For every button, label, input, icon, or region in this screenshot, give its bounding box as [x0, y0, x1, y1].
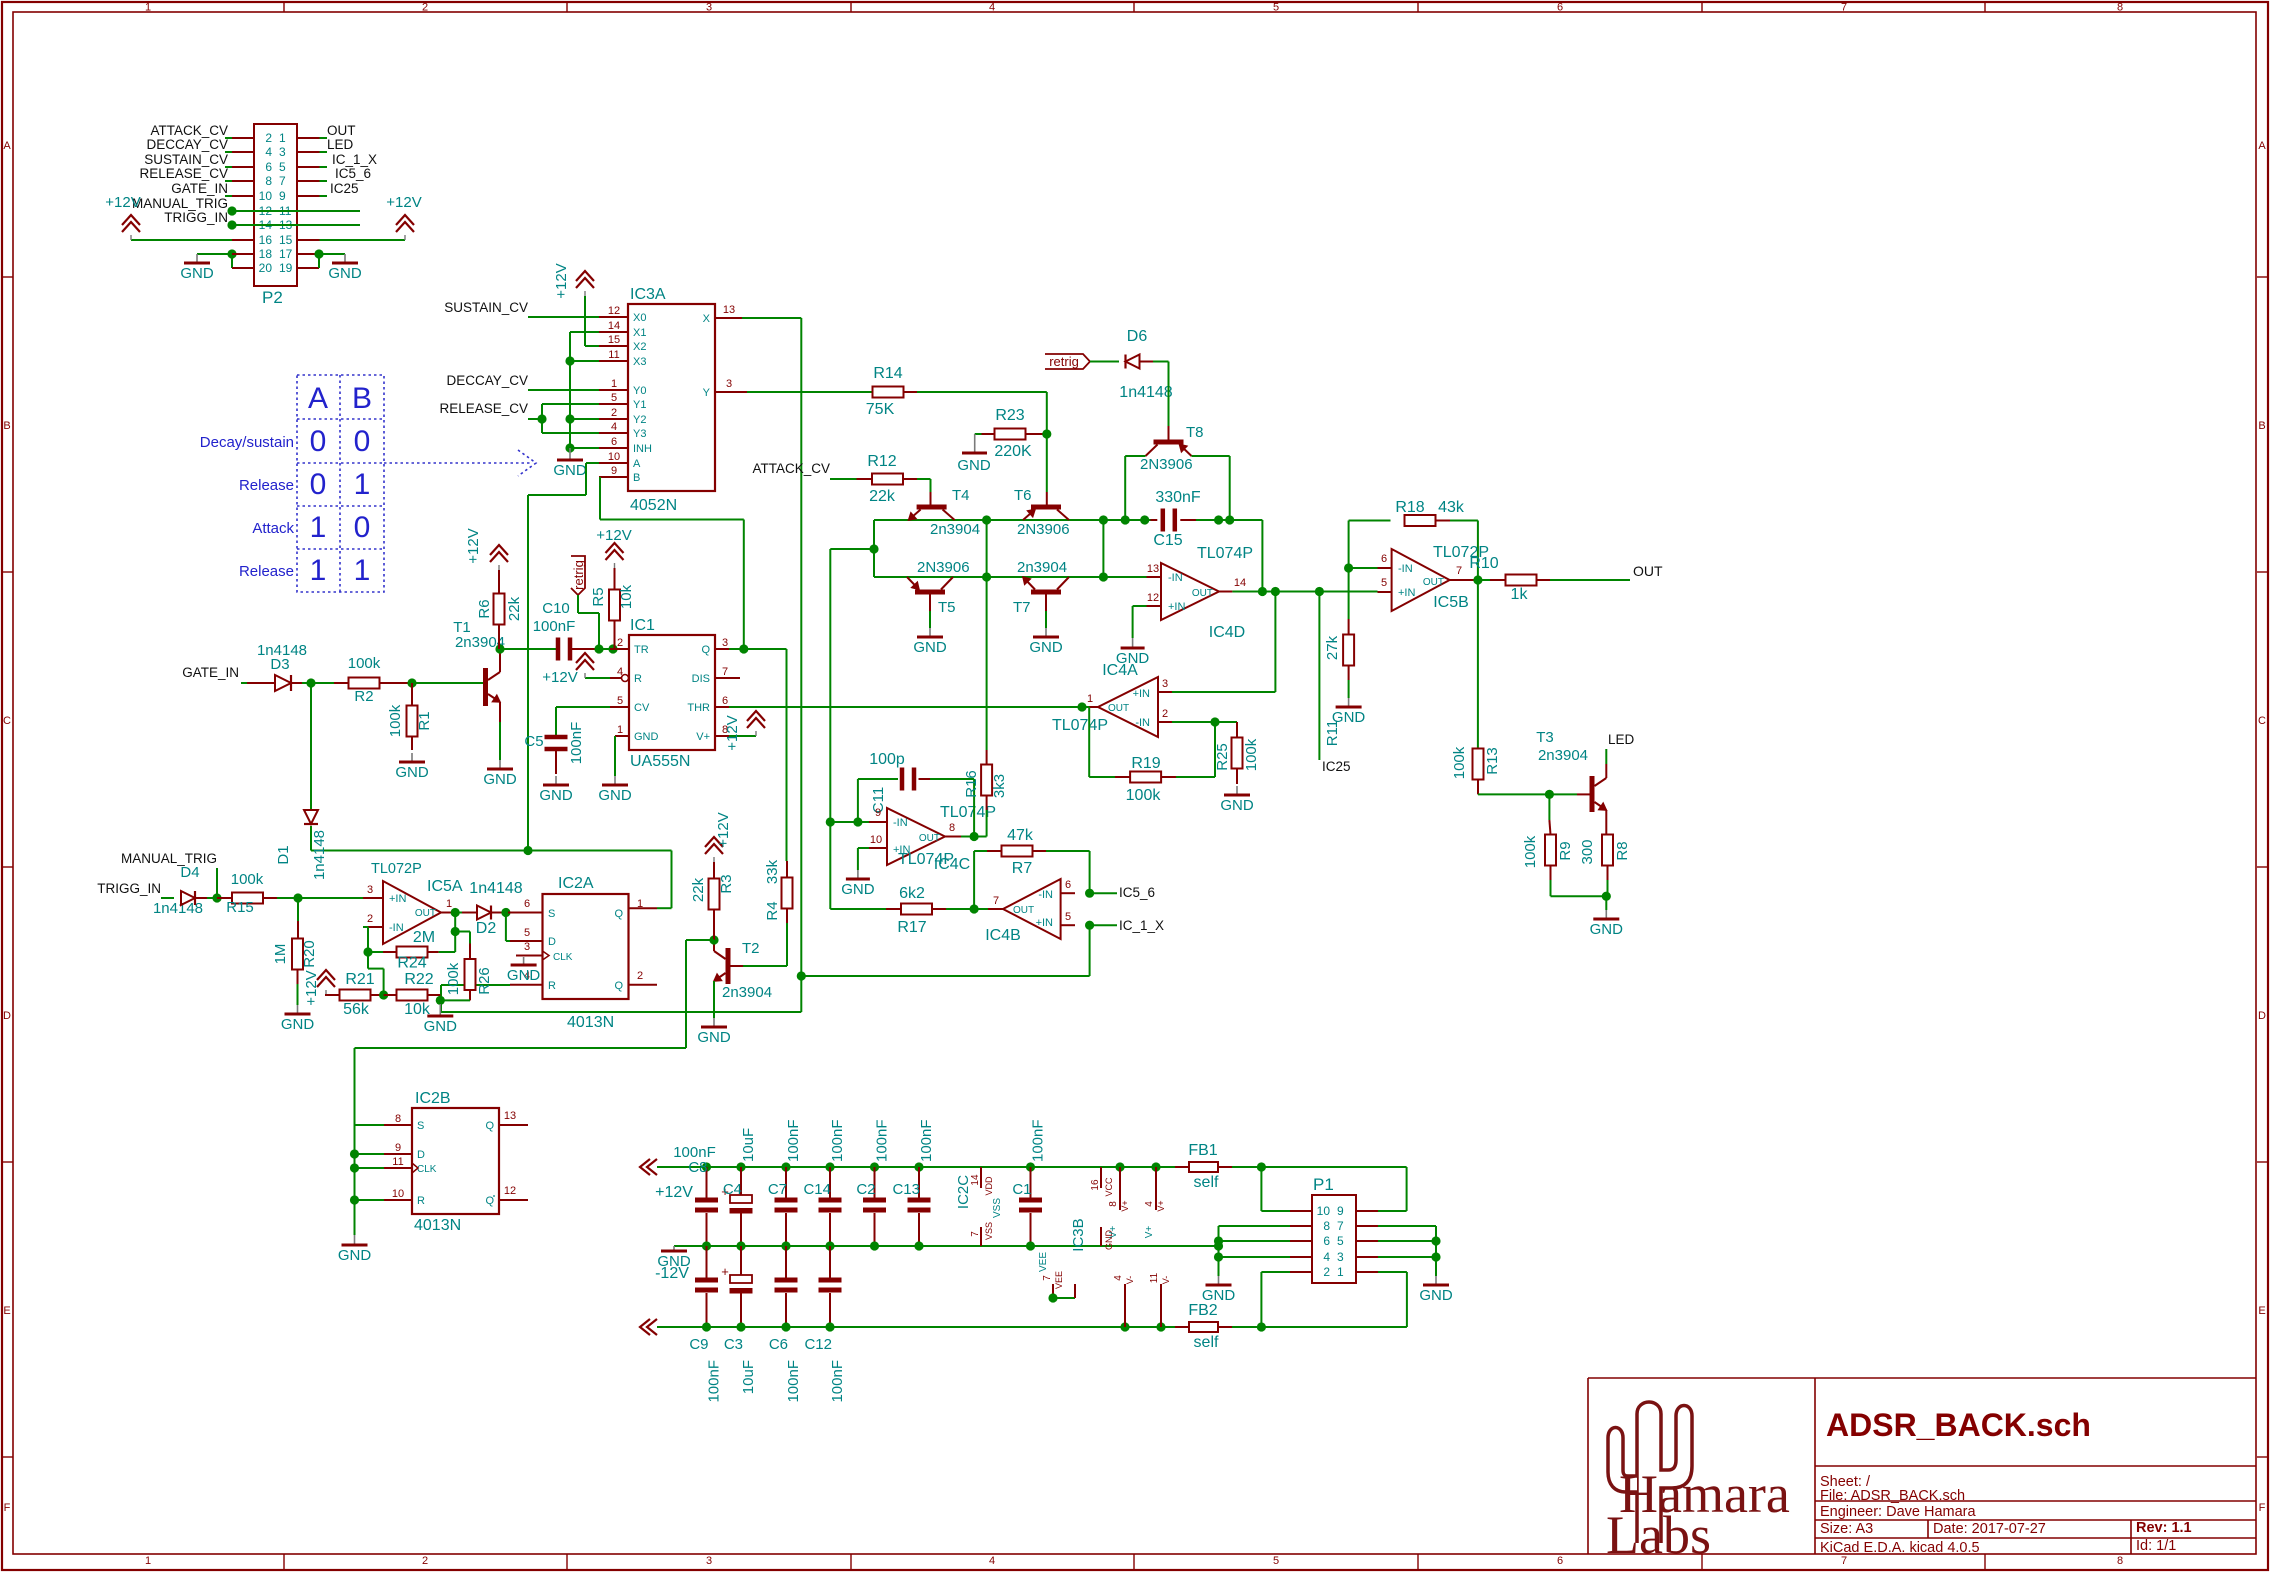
svg-text:FB2: FB2: [1188, 1302, 1217, 1319]
svg-text:1: 1: [446, 898, 452, 910]
svg-text:7: 7: [1337, 1219, 1344, 1233]
svg-text:Q: Q: [614, 980, 623, 992]
svg-text:Q: Q: [485, 1120, 494, 1132]
svg-text:12: 12: [608, 305, 620, 317]
svg-text:GND: GND: [281, 1016, 315, 1033]
svg-text:OUT: OUT: [327, 123, 356, 138]
svg-text:GND: GND: [841, 881, 875, 898]
svg-text:100nF: 100nF: [568, 722, 585, 765]
svg-text:UA555N: UA555N: [630, 753, 690, 770]
svg-text:F: F: [4, 1502, 11, 1514]
svg-text:7: 7: [279, 174, 286, 188]
svg-text:+IN: +IN: [1168, 601, 1185, 613]
svg-text:2M: 2M: [413, 929, 435, 946]
svg-text:R10: R10: [1469, 555, 1498, 572]
svg-text:1: 1: [1337, 1265, 1344, 1279]
svg-text:B: B: [3, 420, 10, 432]
svg-text:2: 2: [422, 1555, 428, 1567]
svg-text:GND: GND: [697, 1029, 731, 1046]
svg-text:22k: 22k: [869, 488, 896, 505]
svg-text:6: 6: [265, 160, 272, 174]
svg-text:V+: V+: [1144, 1226, 1155, 1239]
svg-text:THR: THR: [687, 702, 710, 714]
svg-text:R25: R25: [1214, 743, 1231, 771]
svg-text:9: 9: [875, 807, 881, 819]
svg-text:IC1: IC1: [630, 617, 655, 634]
svg-text:+12V: +12V: [542, 669, 577, 686]
svg-text:100nF: 100nF: [706, 1360, 723, 1403]
svg-text:5: 5: [1337, 1234, 1344, 1248]
svg-text:T5: T5: [938, 599, 956, 616]
svg-text:8: 8: [1323, 1219, 1330, 1233]
svg-text:10uF: 10uF: [740, 1128, 757, 1162]
svg-text:1n4148: 1n4148: [469, 880, 522, 897]
svg-text:INH: INH: [633, 443, 652, 455]
svg-text:3: 3: [1337, 1250, 1344, 1264]
svg-text:7: 7: [1841, 1555, 1847, 1567]
svg-text:X3: X3: [633, 356, 646, 368]
svg-text:VSS: VSS: [984, 1222, 994, 1240]
svg-text:-IN: -IN: [893, 817, 908, 829]
svg-text:R14: R14: [873, 365, 902, 382]
svg-text:OUT: OUT: [1423, 577, 1444, 588]
svg-text:IC5_6: IC5_6: [335, 166, 371, 181]
svg-text:IC4B: IC4B: [985, 927, 1021, 944]
svg-text:GND: GND: [507, 967, 541, 984]
svg-text:13: 13: [504, 1110, 516, 1122]
svg-text:TRIGG_IN: TRIGG_IN: [97, 881, 161, 896]
svg-text:2n3904: 2n3904: [930, 521, 980, 538]
svg-text:CV: CV: [634, 702, 650, 714]
svg-text:6: 6: [1381, 553, 1387, 565]
svg-text:1: 1: [354, 468, 371, 501]
svg-text:OUT: OUT: [1192, 588, 1213, 599]
svg-text:5: 5: [1065, 911, 1071, 923]
svg-text:100nF: 100nF: [918, 1119, 935, 1162]
svg-text:10: 10: [259, 189, 273, 203]
svg-text:4: 4: [1113, 1275, 1124, 1281]
svg-text:V+: V+: [1120, 1200, 1130, 1211]
svg-text:2: 2: [637, 970, 643, 982]
svg-text:CLK: CLK: [417, 1164, 437, 1175]
svg-text:C3: C3: [724, 1336, 743, 1353]
svg-text:5: 5: [1273, 1555, 1279, 1567]
svg-text:R9: R9: [1557, 841, 1574, 860]
svg-text:10: 10: [392, 1188, 404, 1200]
svg-text:2N3906: 2N3906: [917, 559, 970, 576]
svg-text:X0: X0: [633, 312, 646, 324]
svg-text:3: 3: [722, 637, 728, 649]
svg-text:100k: 100k: [1522, 835, 1539, 868]
svg-text:GND: GND: [328, 265, 362, 282]
svg-text:100k: 100k: [387, 704, 404, 737]
svg-text:4: 4: [989, 2, 995, 14]
svg-text:3: 3: [524, 941, 530, 953]
svg-text:330nF: 330nF: [1155, 489, 1201, 506]
svg-text:-IN: -IN: [1168, 572, 1183, 584]
svg-text:11: 11: [608, 349, 619, 361]
svg-text:P2: P2: [262, 288, 283, 307]
svg-text:4: 4: [611, 421, 617, 433]
svg-text:T8: T8: [1186, 424, 1204, 441]
svg-text:GND: GND: [424, 1018, 458, 1035]
svg-text:TRIGG_IN: TRIGG_IN: [164, 210, 228, 225]
svg-text:19: 19: [279, 261, 293, 275]
svg-text:16: 16: [259, 233, 273, 247]
svg-text:GND: GND: [539, 787, 573, 804]
svg-text:100k: 100k: [1126, 787, 1162, 804]
svg-text:ATTACK_CV: ATTACK_CV: [150, 123, 228, 138]
svg-text:Release: Release: [239, 563, 294, 580]
svg-text:100k: 100k: [1451, 746, 1468, 779]
svg-text:P1: P1: [1313, 1175, 1334, 1194]
svg-text:Q: Q: [614, 908, 623, 920]
svg-text:GND: GND: [657, 1253, 691, 1270]
svg-text:1: 1: [310, 554, 327, 587]
svg-text:1: 1: [145, 1555, 151, 1567]
svg-text:self: self: [1194, 1174, 1219, 1191]
svg-text:Y3: Y3: [633, 428, 646, 440]
svg-text:5: 5: [1381, 577, 1387, 589]
svg-text:4052N: 4052N: [630, 497, 677, 514]
svg-text:8: 8: [2117, 1555, 2123, 1567]
svg-text:13: 13: [723, 304, 735, 316]
svg-text:4: 4: [265, 145, 272, 159]
svg-text:IC5A: IC5A: [427, 878, 463, 895]
svg-text:100k: 100k: [231, 871, 264, 888]
svg-text:Decay/sustain: Decay/sustain: [200, 434, 294, 451]
svg-text:R22: R22: [404, 971, 433, 988]
svg-text:11: 11: [1149, 1272, 1160, 1283]
svg-text:C13: C13: [892, 1181, 920, 1198]
svg-text:CLK: CLK: [553, 952, 573, 963]
svg-text:OUT: OUT: [1633, 563, 1663, 579]
svg-text:220K: 220K: [994, 443, 1032, 460]
svg-text:VDD: VDD: [984, 1176, 994, 1196]
svg-text:MANUAL_TRIG: MANUAL_TRIG: [132, 196, 228, 211]
svg-text:20: 20: [259, 261, 273, 275]
svg-text:IC4D: IC4D: [1209, 624, 1245, 641]
svg-text:10: 10: [870, 834, 882, 846]
svg-text:R17: R17: [897, 919, 926, 936]
svg-text:-IN: -IN: [1398, 563, 1413, 575]
svg-text:10: 10: [1317, 1204, 1331, 1218]
svg-text:IC4A: IC4A: [1102, 662, 1138, 679]
svg-text:0: 0: [354, 425, 371, 458]
svg-text:7: 7: [722, 666, 728, 678]
svg-text:T4: T4: [952, 487, 970, 504]
svg-text:V+: V+: [696, 731, 710, 743]
svg-text:2n3904: 2n3904: [722, 984, 772, 1001]
svg-text:+12V: +12V: [724, 715, 741, 750]
svg-text:0: 0: [310, 425, 327, 458]
svg-text:6: 6: [1065, 879, 1071, 891]
svg-text:D1: D1: [275, 845, 292, 864]
svg-text:TL074P: TL074P: [898, 851, 954, 868]
svg-text:C5: C5: [524, 733, 543, 750]
svg-text:GND: GND: [1419, 1287, 1453, 1304]
svg-text:22k: 22k: [690, 877, 707, 902]
svg-text:IC25: IC25: [1322, 759, 1351, 774]
svg-text:9: 9: [395, 1142, 401, 1154]
svg-text:+12V: +12V: [303, 970, 320, 1005]
svg-text:TL074P: TL074P: [940, 804, 996, 821]
svg-text:C14: C14: [803, 1181, 831, 1198]
svg-text:7: 7: [1841, 2, 1847, 14]
svg-text:V-: V-: [1125, 1276, 1135, 1285]
svg-text:9: 9: [1337, 1204, 1344, 1218]
svg-text:R11: R11: [1324, 720, 1341, 746]
svg-text:T6: T6: [1014, 487, 1032, 504]
svg-text:1: 1: [611, 378, 617, 390]
svg-text:IC25: IC25: [330, 181, 359, 196]
svg-text:+IN: +IN: [1036, 917, 1053, 929]
svg-text:C2: C2: [856, 1181, 875, 1198]
svg-text:10uF: 10uF: [740, 1360, 757, 1394]
svg-text:KiCad E.D.A. kicad 4.0.5: KiCad E.D.A. kicad 4.0.5: [1820, 1540, 1980, 1556]
svg-text:Id: 1/1: Id: 1/1: [2136, 1538, 2176, 1554]
svg-text:R5: R5: [590, 587, 607, 606]
svg-text:R26: R26: [476, 967, 493, 995]
svg-text:GND: GND: [957, 457, 991, 474]
svg-text:D4: D4: [180, 864, 199, 881]
svg-text:R3: R3: [718, 874, 735, 893]
svg-text:100p: 100p: [869, 751, 905, 768]
svg-text:F: F: [2259, 1502, 2266, 1514]
svg-text:6: 6: [1557, 1555, 1563, 1567]
svg-text:4: 4: [989, 1555, 995, 1567]
svg-text:C12: C12: [804, 1336, 832, 1353]
svg-text:18: 18: [259, 247, 273, 261]
svg-text:V+: V+: [1156, 1200, 1166, 1211]
svg-text:RELEASE_CV: RELEASE_CV: [139, 166, 228, 181]
svg-text:R8: R8: [1614, 841, 1631, 860]
svg-text:10: 10: [608, 451, 620, 463]
svg-text:File: ADSR_BACK.sch: File: ADSR_BACK.sch: [1820, 1488, 1965, 1504]
svg-text:10k: 10k: [618, 584, 635, 609]
svg-text:13: 13: [1147, 563, 1159, 575]
svg-text:5: 5: [524, 927, 530, 939]
svg-text:1: 1: [354, 554, 371, 587]
svg-text:C9: C9: [689, 1336, 708, 1353]
svg-text:C: C: [3, 715, 11, 727]
svg-text:7: 7: [993, 895, 999, 907]
svg-text:100k: 100k: [1243, 738, 1260, 771]
svg-text:MANUAL_TRIG: MANUAL_TRIG: [121, 851, 217, 866]
svg-text:R2: R2: [354, 688, 373, 705]
svg-text:2: 2: [1162, 708, 1168, 720]
svg-text:B: B: [352, 382, 372, 415]
svg-text:Attack: Attack: [252, 520, 294, 537]
svg-text:VEE: VEE: [1038, 1252, 1049, 1272]
svg-text:6k2: 6k2: [899, 885, 925, 902]
svg-text:3: 3: [367, 884, 373, 896]
svg-text:T3: T3: [1536, 729, 1554, 746]
svg-text:+: +: [721, 1264, 729, 1279]
svg-text:IC3A: IC3A: [630, 286, 666, 303]
svg-text:Rev: 1.1: Rev: 1.1: [2136, 1520, 2192, 1536]
svg-text:C4: C4: [723, 1181, 742, 1198]
svg-text:27k: 27k: [1324, 635, 1341, 660]
svg-text:6: 6: [722, 695, 728, 707]
svg-text:100nF: 100nF: [533, 618, 576, 635]
svg-text:12: 12: [1147, 592, 1159, 604]
svg-text:0: 0: [354, 511, 371, 544]
svg-text:Y2: Y2: [633, 414, 646, 426]
svg-text:OUT: OUT: [415, 908, 436, 919]
svg-text:R12: R12: [867, 453, 896, 470]
svg-text:+IN: +IN: [1398, 587, 1415, 599]
svg-text:+12V: +12V: [386, 194, 421, 211]
svg-text:Size: A3: Size: A3: [1820, 1521, 1873, 1537]
svg-text:Q: Q: [701, 644, 710, 656]
svg-text:5: 5: [1273, 2, 1279, 14]
svg-text:1: 1: [310, 511, 327, 544]
svg-text:GND: GND: [553, 462, 587, 479]
svg-text:2: 2: [617, 637, 623, 649]
svg-text:8: 8: [395, 1113, 401, 1125]
svg-text:3: 3: [706, 1555, 712, 1567]
svg-text:6: 6: [1557, 2, 1563, 14]
svg-text:1: 1: [145, 2, 151, 14]
svg-text:3: 3: [726, 378, 732, 390]
svg-text:Date: 2017-07-27: Date: 2017-07-27: [1933, 1521, 2046, 1537]
svg-text:R7: R7: [1012, 860, 1033, 877]
svg-text:IC2B: IC2B: [415, 1090, 451, 1107]
svg-text:R23: R23: [995, 407, 1024, 424]
svg-text:-IN: -IN: [1135, 717, 1150, 729]
svg-text:5: 5: [279, 160, 286, 174]
svg-text:R20: R20: [301, 940, 318, 968]
svg-text:C7: C7: [768, 1181, 787, 1198]
svg-text:B: B: [633, 472, 640, 484]
svg-text:5: 5: [611, 392, 617, 404]
svg-text:X1: X1: [633, 327, 646, 339]
svg-text:Release: Release: [239, 477, 294, 494]
svg-text:15: 15: [279, 233, 293, 247]
svg-text:X: X: [703, 313, 711, 325]
svg-text:R1: R1: [416, 711, 433, 730]
svg-text:GATE_IN: GATE_IN: [171, 181, 228, 196]
svg-text:2: 2: [611, 407, 617, 419]
svg-text:GND: GND: [1590, 921, 1624, 938]
svg-text:Y: Y: [703, 387, 711, 399]
svg-text:6: 6: [1323, 1234, 1330, 1248]
svg-text:56k: 56k: [343, 1001, 370, 1018]
svg-text:3: 3: [706, 2, 712, 14]
svg-text:E: E: [3, 1305, 10, 1317]
svg-text:OUT: OUT: [1108, 703, 1129, 714]
svg-text:SUSTAIN_CV: SUSTAIN_CV: [144, 152, 228, 167]
svg-text:8: 8: [1108, 1201, 1119, 1207]
svg-text:IC_1_X: IC_1_X: [1119, 918, 1164, 933]
svg-text:GND: GND: [1220, 797, 1254, 814]
svg-text:8: 8: [2117, 2, 2123, 14]
svg-text:GND: GND: [634, 731, 659, 743]
svg-text:1n4148: 1n4148: [1119, 384, 1172, 401]
svg-text:+12V: +12V: [596, 527, 631, 544]
svg-text:8: 8: [265, 174, 272, 188]
svg-text:T7: T7: [1013, 599, 1031, 616]
svg-text:1: 1: [279, 131, 286, 145]
svg-text:R21: R21: [345, 971, 374, 988]
svg-text:100nF: 100nF: [829, 1119, 846, 1162]
svg-text:+12V: +12V: [715, 812, 732, 847]
svg-text:GATE_IN: GATE_IN: [182, 665, 239, 680]
svg-text:R: R: [417, 1195, 425, 1207]
svg-text:+12V: +12V: [465, 528, 482, 563]
svg-text:B: B: [2258, 420, 2265, 432]
svg-text:2: 2: [1323, 1265, 1330, 1279]
svg-text:7: 7: [1042, 1275, 1053, 1281]
svg-text:100k: 100k: [348, 655, 381, 672]
svg-text:1M: 1M: [272, 944, 289, 965]
svg-text:C: C: [2258, 715, 2266, 727]
svg-text:Y0: Y0: [633, 385, 646, 397]
svg-text:7: 7: [1456, 565, 1462, 577]
svg-text:3k3: 3k3: [991, 774, 1008, 798]
svg-text:C15: C15: [1153, 532, 1182, 549]
svg-text:LED: LED: [327, 137, 354, 152]
svg-text:15: 15: [608, 334, 620, 346]
svg-text:16: 16: [1090, 1179, 1101, 1191]
svg-text:D: D: [2258, 1010, 2266, 1022]
svg-text:D2: D2: [476, 920, 497, 937]
svg-text:D: D: [417, 1149, 425, 1161]
svg-text:300: 300: [1579, 839, 1596, 864]
svg-text:GND: GND: [1029, 639, 1063, 656]
svg-text:A: A: [633, 458, 641, 470]
svg-text:2: 2: [265, 131, 272, 145]
svg-text:GND: GND: [1202, 1287, 1236, 1304]
svg-text:+12V: +12V: [655, 1184, 693, 1201]
svg-text:2: 2: [422, 2, 428, 14]
svg-text:2n3904: 2n3904: [1017, 559, 1067, 576]
svg-text:GND: GND: [338, 1247, 372, 1264]
svg-text:-IN: -IN: [1038, 889, 1053, 901]
svg-text:LED: LED: [1608, 732, 1635, 747]
svg-text:retrig: retrig: [1049, 354, 1079, 369]
svg-text:Q: Q: [485, 1195, 494, 1207]
svg-text:1: 1: [617, 724, 623, 736]
svg-text:IC3B: IC3B: [1070, 1218, 1087, 1251]
svg-text:100nF: 100nF: [1030, 1119, 1047, 1162]
svg-text:IC_1_X: IC_1_X: [332, 152, 377, 167]
svg-text:22k: 22k: [506, 596, 523, 621]
svg-text:A: A: [308, 382, 328, 415]
svg-text:47k: 47k: [1007, 827, 1034, 844]
svg-text:V-: V-: [1161, 1276, 1171, 1285]
svg-text:FB1: FB1: [1188, 1142, 1217, 1159]
svg-text:2N3906: 2N3906: [1017, 521, 1070, 538]
svg-text:R16: R16: [963, 770, 980, 798]
svg-text:10k: 10k: [404, 1001, 431, 1018]
svg-text:D: D: [548, 936, 556, 948]
svg-text:0: 0: [310, 468, 327, 501]
svg-text:1n4148: 1n4148: [311, 830, 328, 880]
svg-text:R13: R13: [1484, 747, 1501, 775]
svg-text:6: 6: [611, 436, 617, 448]
svg-text:-IN: -IN: [389, 922, 404, 934]
svg-text:100nF: 100nF: [829, 1360, 846, 1403]
svg-text:4013N: 4013N: [414, 1217, 461, 1234]
svg-text:VEE: VEE: [1054, 1271, 1064, 1289]
svg-text:4: 4: [1323, 1250, 1330, 1264]
svg-text:14: 14: [970, 1174, 981, 1186]
svg-text:self: self: [1194, 1334, 1219, 1351]
svg-text:R19: R19: [1131, 755, 1160, 772]
svg-text:R15: R15: [226, 899, 254, 916]
